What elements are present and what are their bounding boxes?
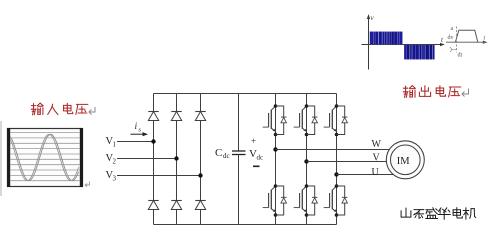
DC link rail lower segment (238, 155, 240, 225)
IGBT Q5 (bottom leg 2) (294, 186, 307, 212)
rectifier diode D4 (bottom) (148, 200, 158, 202)
rectifier leg 1 wire (153, 94, 155, 225)
IGBT Q2 (top leg 2) antiparallel diode (312, 116, 318, 118)
bottom DC rail (154, 224, 337, 226)
PWM pulse block negative half (404, 45, 435, 60)
input voltage label (shu ru dian ya) (31, 103, 88, 115)
output U junction dot (334, 172, 338, 176)
IGBT Q6 (bottom leg 3) diode branch wire (337, 186, 345, 215)
trapezoid pulse shape (455, 30, 477, 42)
IGBT Q5 (bottom leg 2) diode branch wire (307, 186, 315, 215)
trapezoid dashed vertical (455, 27, 457, 53)
phase V1 wire (117, 141, 154, 143)
input sine wave trace 2 (10, 134, 78, 180)
svg-text:W: W (372, 139, 382, 150)
motor IM outer circle (386, 141, 424, 179)
svg-text:dv: dv (448, 35, 454, 41)
output V junction dot (304, 159, 308, 163)
IGBT Q1 (top leg 1) antiparallel diode (281, 116, 287, 118)
svg-text:a: a (451, 26, 454, 32)
rectifier diode D5 (bottom) (171, 200, 181, 202)
input sine waveform box (8, 129, 83, 187)
inverter leg 2 wire (306, 94, 308, 225)
output U wire (337, 174, 395, 176)
inverter leg 1 wire (275, 94, 277, 225)
output W wire (276, 149, 391, 151)
IGBT Q4 (bottom leg 1) top junction dot (274, 184, 278, 188)
IGBT Q4 (bottom leg 1) (263, 186, 276, 212)
junction dot V3/leg3 (198, 173, 202, 177)
svg-text:t: t (441, 36, 444, 44)
svg-text:1: 1 (113, 141, 117, 149)
motor IM inner circle (391, 145, 421, 175)
return mark after output label (462, 89, 469, 97)
rectifier diode D2 (top) (171, 111, 181, 113)
IGBT Q3 (top leg 3) antiparallel diode (342, 116, 348, 118)
IGBT Q1 (top leg 1) bottom junction dot (274, 133, 278, 137)
PWM vertical axis (368, 17, 370, 70)
IGBT Q3 (top leg 3) diode branch wire (337, 106, 345, 135)
IGBT Q4 (bottom leg 1) antiparallel diode (281, 196, 287, 198)
svg-text:dt: dt (458, 53, 463, 59)
left page edge line (0, 121, 2, 196)
waveform box thick right band (80, 128, 83, 187)
top DC rail (154, 93, 337, 95)
output W junction dot (273, 147, 277, 151)
IGBT Q6 (bottom leg 3) bottom junction dot (335, 213, 339, 217)
junction dot V1/leg1 (151, 139, 155, 143)
IGBT Q6 (bottom leg 3) (324, 186, 337, 212)
svg-text:dc: dc (257, 154, 264, 162)
trapezoid small under-axis marks (450, 47, 456, 52)
svg-text:i: i (135, 122, 138, 132)
trapezoid diagram baseline (446, 41, 485, 43)
is arrow (131, 133, 146, 135)
svg-text:3: 3 (113, 175, 117, 183)
IGBT Q2 (top leg 2) top junction dot (305, 104, 309, 108)
phase V2 wire (117, 158, 177, 160)
company name (shan dong sheng hua dian ji) (401, 208, 476, 220)
IGBT Q5 (bottom leg 2) antiparallel diode (312, 196, 318, 198)
IGBT Q3 (top leg 3) bottom junction dot (335, 133, 339, 137)
svg-text:V: V (373, 153, 381, 164)
IGBT Q2 (top leg 2) diode branch wire (307, 106, 315, 135)
minus sign (253, 166, 260, 168)
IGBT Q6 (bottom leg 3) top junction dot (335, 184, 339, 188)
inverter leg 3 wire (336, 94, 338, 225)
IGBT Q2 (top leg 2) bottom junction dot (305, 133, 309, 137)
IGBT Q5 (bottom leg 2) top junction dot (305, 184, 309, 188)
svg-text:+: + (251, 136, 256, 146)
small return mark below box (85, 182, 90, 187)
junction dot V2/leg2 (174, 156, 178, 160)
phase V3 wire (117, 175, 201, 177)
IGBT Q1 (top leg 1) (263, 106, 276, 132)
IGBT Q1 (top leg 1) top junction dot (274, 104, 278, 108)
svg-text:2: 2 (113, 158, 117, 166)
svg-text:dc: dc (223, 152, 230, 160)
capacitor Cdc plate top (232, 150, 246, 152)
return mark after input label (89, 107, 95, 115)
svg-text:v: v (371, 14, 375, 22)
DC link rail upper segment (238, 94, 240, 152)
rectifier diode D1 (top) (148, 111, 158, 113)
rectifier diode D3 (top) (195, 111, 205, 113)
input sine wave trace 1 (10, 134, 78, 180)
svg-text:s: s (139, 127, 142, 134)
PWM horizontal axis (362, 44, 443, 46)
IGBT Q4 (bottom leg 1) diode branch wire (276, 186, 284, 215)
svg-text:t: t (484, 36, 486, 42)
rectifier diode D6 (bottom) (195, 200, 205, 202)
svg-text:IM: IM (397, 156, 410, 167)
IGBT Q3 (top leg 3) top junction dot (335, 104, 339, 108)
output V wire (307, 161, 388, 163)
IGBT Q3 (top leg 3) (324, 106, 337, 132)
output voltage label (shu chu dian ya) (403, 86, 461, 98)
IGBT Q6 (bottom leg 3) antiparallel diode (342, 196, 348, 198)
IGBT Q4 (bottom leg 1) bottom junction dot (274, 213, 278, 217)
rectifier leg 3 wire (200, 94, 202, 225)
IGBT Q1 (top leg 1) diode branch wire (276, 106, 284, 135)
PWM pulse block positive half (370, 32, 403, 45)
rectifier leg 2 wire (176, 94, 178, 225)
IGBT Q5 (bottom leg 2) bottom junction dot (305, 213, 309, 217)
IGBT Q2 (top leg 2) (294, 106, 307, 132)
capacitor Cdc plate bottom (232, 154, 246, 156)
waveform grid lines (10, 133, 80, 181)
svg-text:C: C (215, 147, 222, 159)
waveform box thick left band (7, 128, 10, 187)
svg-text:U: U (372, 167, 380, 178)
